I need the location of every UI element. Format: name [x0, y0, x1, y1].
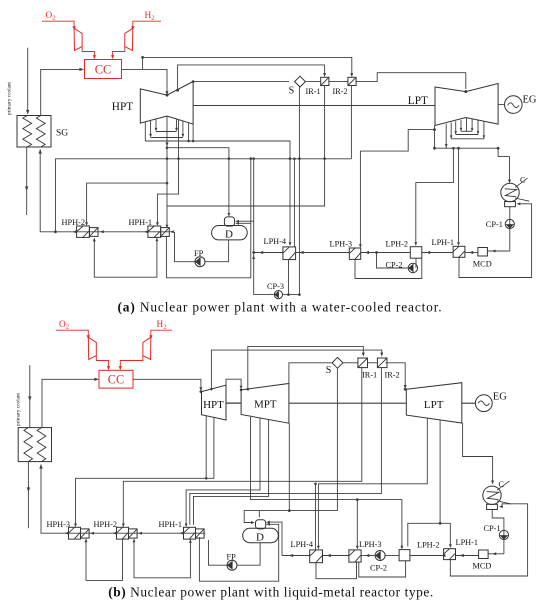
svg-text:IR-1: IR-1 [306, 87, 321, 96]
svg-text:LPH-1: LPH-1 [456, 538, 479, 547]
label HPH-1 (b) [159, 520, 183, 529]
junction dot LPH-4 tap2 (a) [293, 158, 296, 161]
wire D bottom to FP (a) [205, 240, 229, 262]
arrow into HPH-1 top (b) [185, 524, 188, 528]
separator S (a) [295, 76, 306, 87]
reheater IR-1 (b) [358, 358, 368, 368]
arrow feed left of HPH-2 (b) [113, 532, 117, 535]
crossover HPT-MPT (b) [226, 379, 241, 390]
junction dot CC branch (a) [141, 56, 144, 59]
svg-text:HPH-1: HPH-1 [159, 520, 183, 529]
arrow into IR-1 top (a) [323, 73, 326, 77]
label CP-3 (a) [267, 282, 284, 291]
label EG (b) [493, 392, 507, 403]
turbine HPT (a) [140, 82, 193, 125]
junction dot HPT tap2 (b) [205, 477, 208, 480]
wire CC to HPT (b) [133, 379, 201, 388]
wire LPT fan v3 (a) [455, 121, 457, 134]
wire LPT fan v2 (a) [450, 123, 452, 139]
arrow into CC left port (a) [93, 55, 96, 59]
wire bus header (a) [56, 159, 352, 232]
wire FP discharge (a) [175, 232, 196, 262]
junction dot HPT top tap (b) [210, 388, 213, 391]
svg-text:LPH-4: LPH-4 [264, 237, 287, 246]
condenser C (b) [483, 481, 512, 510]
wire CP-3 line (a) [254, 294, 300, 296]
label LPH-4 (b) [291, 540, 314, 549]
label IR-1 (a) [306, 87, 321, 96]
arrow into LPH-3 top (b) [356, 546, 359, 550]
wire O2 compressor to CC (b) [96, 356, 108, 367]
wire primary coolant inlet (b) [29, 365, 31, 427]
svg-text:MPT: MPT [254, 398, 277, 410]
label HPH-1 (a) [129, 218, 153, 227]
wire steam to LPH-1 (a) [458, 148, 460, 243]
wire LPT left corner drop (a) [434, 126, 436, 149]
wire HPT outer tap to bus drop (a) [188, 123, 190, 142]
arrow into MCD right (b) [492, 552, 496, 555]
arrow into HPT inlet (b) [199, 387, 202, 391]
arrow drain into HPH-3 (b) [85, 538, 88, 542]
label CC (a) [95, 63, 111, 77]
wire LPT fan row1 (a) [461, 130, 472, 132]
wire CP-1 to MCD (a) [487, 250, 509, 252]
label FP (a) [194, 249, 204, 258]
generator EG (b) [475, 395, 492, 412]
arrow into D side lower (a) [235, 222, 239, 225]
svg-text:EG: EG [523, 95, 537, 106]
svg-text:MCD: MCD [473, 562, 492, 571]
label HPT (b) [203, 399, 224, 411]
label CP-1 (b) [484, 524, 501, 533]
arrow into CC right port (a) [111, 55, 114, 59]
wire SG steam to CC (a) [41, 69, 81, 115]
arrow O2 into compressor (b) [87, 335, 90, 339]
arrow into HPH-3 top (b) [74, 524, 77, 528]
wire HPT center extraction (a) [166, 116, 168, 206]
wire HPT tap to IR-1 (a) [178, 65, 325, 90]
compressor H2 (b) [143, 337, 151, 359]
wire H2 compressor to CC (b) [120, 356, 143, 367]
junction dot HPT top corner (a) [192, 80, 195, 83]
wire MPT exhaust tap to bus (b) [288, 423, 290, 510]
arrow into LPH-3 top (a) [359, 244, 362, 248]
arrow into HPT waist (a) [166, 91, 169, 95]
wire steam to HPH-2 (a) [87, 183, 167, 223]
wire primary coolant outlet (b) [27, 462, 29, 529]
pump CP-1 (b) [499, 530, 508, 539]
wire LPH-1 to LPH-2 (b) [410, 555, 444, 557]
wire H2 inlet (b) [151, 330, 172, 335]
separator S (b) [332, 357, 343, 368]
arrow fan row2 R (a) [182, 134, 185, 138]
arrow into HPH-2 top (a) [85, 222, 88, 226]
wire D dome top tap (b) [258, 511, 260, 518]
wire D riser (a) [253, 159, 255, 295]
arrow drain up into HPH-2 (a) [93, 238, 96, 242]
wire LPT exhaust to condenser (a) [498, 148, 509, 180]
arrow drain into hotwell (b) [499, 505, 503, 508]
wire HPT fan v3 (a) [155, 120, 157, 130]
pump CP-2 (b) [375, 551, 385, 561]
arrow feed into HPH-3 small (b) [90, 532, 94, 535]
wire condensate LPH-1 to LPH-2 (a) [422, 252, 453, 254]
junction dot HPT inlet (b) [200, 390, 203, 393]
wire LPT fan center (a) [466, 118, 468, 132]
arrow LPT row2 R (a) [477, 131, 480, 134]
arrow H2 into compressor (a) [131, 26, 134, 30]
arrow condensate left (b) [289, 554, 293, 557]
label CP-1 (a) [486, 220, 503, 229]
wire CP-1 to MCD (b) [488, 553, 504, 555]
wire H2 compressor to CC (a) [113, 47, 125, 56]
arrow into CC right port (b) [119, 366, 122, 370]
O2 feed label (a) [46, 11, 56, 22]
steam generator SG (a) [17, 116, 51, 148]
wire S drain to D dome (b) [244, 368, 337, 522]
wire LPT tap to LPH-4 (b) [318, 418, 427, 547]
label MCD (b) [473, 562, 492, 571]
junction dot S drain end (a) [287, 293, 301, 296]
wire D bottom to FP (b) [237, 543, 260, 565]
wire S drain down (a) [298, 87, 300, 295]
arrow primary outlet down (b) [27, 487, 30, 492]
svg-text:HPH-2: HPH-2 [62, 218, 86, 227]
wire IR-1 drain to HPH-2 (b) [123, 367, 361, 525]
arrow into D side upper (b) [266, 521, 270, 524]
junction dot LPH-1 steam (a) [457, 147, 460, 150]
arrow primary coolant down (b) [28, 396, 31, 401]
svg-text:S: S [326, 365, 332, 376]
svg-text:LPH-2: LPH-2 [417, 541, 440, 550]
wire HPH-1 drain loop (a) [94, 237, 157, 277]
label LPH-2 (a) [386, 239, 409, 248]
junction dot HPT waist top (a) [166, 94, 169, 97]
wire LPH-1 drain to condenser (b) [450, 504, 527, 576]
wire HPT fan v1 (a) [144, 122, 146, 141]
wire HPH-1 aux drain to D (a) [166, 159, 250, 278]
wire HPT fan v4 (a) [176, 119, 178, 129]
wire LPT bus (a) [435, 147, 499, 149]
arrow up on riser (a) [252, 255, 255, 259]
svg-text:HPH-3: HPH-3 [47, 520, 71, 529]
turbine LPT (b) [406, 383, 462, 423]
wire MPT tap to IR-1 (b) [248, 346, 363, 389]
svg-text:LPH-3: LPH-3 [330, 239, 353, 248]
wire LPT fan row2 (a) [456, 134, 478, 136]
arrow feed left of HPH-2 (a) [73, 230, 77, 233]
label IR-2 (b) [385, 371, 400, 380]
wire O2 inlet (a) [42, 21, 74, 26]
label LPT (b) [424, 399, 444, 411]
wire HPT fan row2 (a) [151, 137, 183, 139]
wire HPH-2 drain loop (b) [86, 539, 123, 580]
arrow IR-1 drain into HPH-1 aux (a) [166, 225, 169, 229]
wire condensate LPH-3 to LPH-4 (a) [296, 252, 350, 254]
svg-text:IR-1: IR-1 [362, 371, 377, 380]
arrow into MCD right (a) [492, 250, 496, 253]
condenser C (a) [501, 178, 530, 207]
arrow into D side upper (a) [235, 220, 239, 223]
wire HPT fan v2 (a) [150, 121, 152, 135]
wire LPT fan v7 (a) [483, 122, 485, 139]
wire main condensate to D (b) [282, 555, 310, 557]
reheater IR-2 (b) [377, 358, 387, 368]
label IR-2 (a) [333, 87, 348, 96]
arrow into LPH-4 right (b) [327, 554, 331, 557]
generator EG (a) [505, 96, 523, 114]
wire IR-1 drain (a) [167, 86, 325, 226]
label IR-1 (b) [362, 371, 377, 380]
arrow into LPH-1 left... right (b) [460, 554, 464, 557]
wire feed line (b) [41, 465, 205, 534]
junction dots on bus (a) [166, 128, 436, 160]
heater HPH-3 (b) [69, 527, 90, 539]
reheater IR-2 (a) [348, 77, 356, 85]
arrow into LPH-2 top (b) [400, 546, 403, 550]
wire HPT tap2 down (b) [205, 416, 207, 478]
junction dot MPT top tap (b) [247, 388, 250, 391]
arrow into LPH-4 right (a) [300, 251, 304, 254]
svg-text:(b) Nuclear power plant with l: (b) Nuclear power plant with liquid-meta… [108, 585, 433, 600]
wire row4 to deaerator dome (a) [167, 148, 229, 215]
steam generator SG (b) [18, 428, 51, 462]
heater LPH-2 (b) [399, 550, 410, 561]
wire MPT tap to LPH-2 (b) [251, 417, 402, 547]
wire condensate LPH-2 to LPH-3 (a) [361, 252, 411, 254]
junction dot LPT inlet (b) [404, 388, 407, 391]
arrow into LPH-4 top (b) [317, 546, 320, 550]
wire O2 inlet (b) [56, 330, 88, 335]
arrow feed left of HPH-1 (a) [144, 230, 148, 233]
wire CC branch to IR-2 (a) [143, 57, 352, 73]
junction dot LPT bus mid (a) [457, 147, 460, 150]
svg-text:LPH-3: LPH-3 [359, 540, 382, 549]
arrow into IR-2 top (b) [380, 353, 383, 357]
wire primary coolant inlet (a) [27, 48, 29, 113]
svg-text:CC: CC [95, 63, 111, 77]
svg-text:D: D [256, 531, 264, 543]
wire LPH-3 feed branch (b) [356, 500, 358, 547]
wire D riser (b) [268, 522, 283, 555]
label primary coolant (a) [7, 81, 13, 115]
label primary coolant (b) [16, 392, 22, 426]
arrow fan v1 (a) [445, 144, 448, 148]
wire HPT tap to HPH-1 (a) [157, 120, 178, 224]
arrow into LPH-2 top (a) [414, 242, 417, 246]
arrow into LPH-3 right (b) [365, 554, 369, 557]
turbine LPT (a) [435, 84, 498, 126]
wire LPH-4 second tap (b) [315, 484, 317, 550]
label LPH-1 (b) [456, 538, 479, 547]
shaft LPT-EG (b) [462, 402, 476, 404]
arrow into IR-1 top (b) [362, 353, 365, 357]
arrow LPT row2 L (a) [454, 131, 457, 134]
wire LPT fan v4 (a) [460, 120, 462, 131]
heater LPH-1 (b) [444, 549, 456, 560]
deaerator D (b) [243, 520, 279, 543]
shaft LPT-EG (a) [498, 104, 505, 106]
label S (b) [326, 365, 332, 376]
label LPT (a) [408, 95, 428, 107]
wire IR-2 drain to HPH-1 (b) [190, 368, 382, 525]
wire IR-1 to IR-2 (b) [368, 362, 378, 364]
wire IR-2 to LPT inlet (a) [356, 73, 466, 89]
pump CP-3 (a) [274, 291, 282, 299]
label CC (b) [108, 372, 124, 386]
wire HPT fan v5 (a) [182, 121, 184, 136]
wire HPT fan row3 to bus (a) [145, 140, 188, 142]
arrow into CC left port (b) [107, 366, 110, 370]
junction dot HPT corner drop (a) [192, 140, 195, 143]
wire LPT fan v6 (a) [477, 120, 479, 134]
label LPH-4 (a) [264, 237, 287, 246]
arrow feed left of HPH-1 (b) [180, 532, 184, 535]
wire LPT tap to LPH-2/LPH-1 (b) [408, 420, 440, 547]
wire H2 inlet (a) [133, 21, 161, 26]
label HPT (a) [112, 101, 133, 113]
wire HPT tap to IR-2 (b) [211, 350, 381, 389]
junction dot condensate riser (a) [252, 251, 255, 254]
svg-text:IR-2: IR-2 [333, 87, 348, 96]
junction dot LPT bus left (a) [433, 147, 436, 150]
label HPH-2 (a) [62, 218, 86, 227]
wire condensate to CP-1 (a) [509, 207, 511, 251]
label HPH-2 (b) [94, 520, 118, 529]
wire LPH-3 to LPH-4 (b) [323, 555, 349, 557]
label LPH-3 (b) [359, 540, 382, 549]
svg-text:C: C [499, 480, 505, 489]
arrow into HPH-2 top (b) [122, 524, 125, 528]
svg-text:LPH-2: LPH-2 [386, 239, 409, 248]
label C (a) [520, 175, 526, 184]
compressor O2 (b) [88, 337, 96, 359]
wire MPT tap2 to HPH-1 (b) [194, 419, 269, 525]
wire row3 extension (a) [189, 141, 290, 159]
wire LPH-1 drain to condenser (a) [459, 204, 532, 278]
tank MCD (a) [478, 248, 488, 257]
label MPT (b) [254, 398, 277, 410]
arrow feed into HPH-1 small (a) [170, 230, 174, 233]
wire MCD to LPH-1 (a) [465, 252, 478, 254]
wire MPT corner to S line (b) [289, 363, 332, 384]
svg-text:primary coolant: primary coolant [7, 81, 13, 115]
label C (b) [499, 480, 505, 489]
wire LPT fan row3 (a) [451, 138, 484, 140]
wire IR-1 to IR-2 (a) [329, 81, 348, 83]
svg-text:primary coolant: primary coolant [16, 392, 22, 426]
label LPH-3 (a) [330, 239, 353, 248]
junction dot LPT tap split (b) [439, 522, 442, 525]
arrow into HPH-1 top (a) [156, 222, 159, 226]
heater LPH-3 (a) [349, 248, 360, 259]
arrow condensate left (a) [259, 251, 263, 254]
wire FP discharge (b) [209, 540, 228, 565]
heater HPH-2 (a) [77, 226, 98, 237]
svg-text:D: D [225, 229, 233, 241]
svg-text:CP-1: CP-1 [484, 524, 501, 533]
wire S to IR-1 (a) [305, 81, 320, 83]
wire LPH-2 to LPH-3 via CP-2 (b) [361, 555, 399, 557]
wire HPH-1 aux drain loop (b) [199, 524, 278, 581]
arrow fan row2 L (a) [149, 134, 152, 138]
label LPH-1 (a) [432, 238, 455, 247]
wire MCD to LPH-1 (b) [456, 555, 479, 557]
wire O2 compressor to CC (a) [82, 47, 94, 56]
arrow LPT row1 L (a) [460, 128, 463, 131]
wire branch to LPH-1 (b) [440, 523, 450, 545]
junction dot row3 end (a) [187, 140, 190, 143]
wire S to IR-1 (b) [343, 362, 358, 364]
arrow LPT row3 R (a) [483, 135, 486, 138]
heater HPH-1 (a) [148, 226, 169, 237]
svg-text:C: C [520, 175, 526, 184]
label LPH-2 (b) [417, 541, 440, 550]
wire LPH-2 drain loop (b) [359, 561, 406, 577]
svg-text:CP-2: CP-2 [370, 563, 387, 572]
reheater IR-1 (a) [321, 77, 329, 85]
label SG (a) [56, 129, 68, 139]
deaerator D (a) [212, 217, 248, 240]
arrow into IR-2 top (a) [350, 73, 353, 77]
wire D side entry upper (a) [238, 220, 254, 222]
svg-text:(a) Nuclear power plant with a: (a) Nuclear power plant with a water-coo… [117, 300, 442, 315]
arrow O2 into compressor (a) [73, 26, 76, 30]
arrow into condenser top (a) [508, 180, 511, 184]
svg-text:HPH-1: HPH-1 [129, 218, 153, 227]
arrow into LPT inlet (b) [404, 385, 407, 389]
heater LPH-3 (b) [349, 550, 361, 562]
wire LPT fan v5 (a) [471, 119, 473, 132]
pump FP (a) [195, 257, 205, 267]
wire LPH-4 drain down (a) [288, 260, 290, 295]
arrow into condenser top (b) [491, 481, 494, 485]
arrow into LPH-1 right (a) [469, 251, 473, 254]
label S (a) [289, 86, 295, 97]
arrow into LPH-2 right (b) [441, 554, 445, 557]
label CP-2 (a) [386, 261, 403, 270]
svg-text:EG: EG [493, 392, 507, 403]
junction dot LPH-3 branch (b) [356, 498, 359, 501]
H2 feed label (a) [145, 11, 155, 22]
arrow into MPT (b) [240, 386, 243, 392]
wire HPT tap to HPH-3 (b) [76, 418, 214, 525]
compressor O2 (a) [74, 28, 82, 50]
arrow fan row1 R (a) [175, 128, 178, 132]
arrow LPT row3 L (a) [450, 135, 453, 138]
svg-text:SG: SG [56, 129, 68, 139]
arrow center extraction down (a) [166, 143, 169, 147]
wire SG steam to CC (b) [42, 379, 95, 427]
junction dot LPT bus right (a) [497, 147, 500, 150]
wire steam to LPH-4 (a) [289, 159, 291, 244]
arrow fan row1 L (a) [155, 128, 158, 132]
arrow feed into HPH-2 small (a) [100, 230, 104, 233]
arrow steam into CC (a) [79, 68, 84, 71]
arrow steam into CC (b) [94, 378, 99, 381]
wire LPH-3 steam feed (a) [360, 130, 434, 245]
arrow into D dome top (a) [228, 213, 231, 217]
arrow into D left side (b) [251, 521, 255, 524]
wire LPH-4 LPH-3 drain loop (b) [316, 562, 357, 579]
label HPH-3 (b) [47, 520, 71, 529]
arrow into LPH-1 top (a) [457, 242, 460, 246]
wire steam to LPH-4 tap2 (a) [293, 159, 295, 247]
arrow drain into hotwell (a) [517, 202, 521, 205]
junction dot bus-feed (a) [54, 230, 57, 233]
wire LPT exhaust to condenser (b) [463, 423, 493, 482]
O2 feed label (b) [59, 320, 69, 331]
